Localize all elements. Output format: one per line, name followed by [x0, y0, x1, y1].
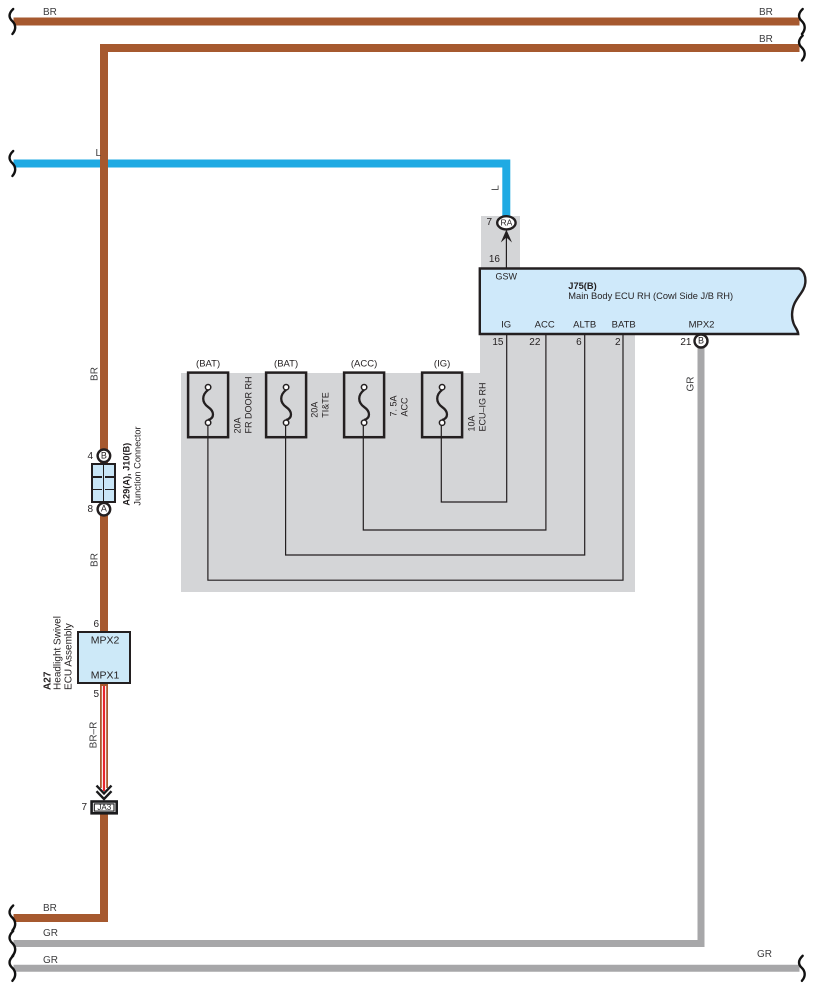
svg-text:JA3: JA3 [97, 803, 111, 812]
